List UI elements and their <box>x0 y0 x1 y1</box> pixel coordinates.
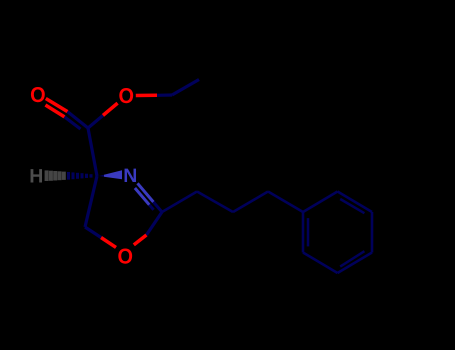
bond C2-O3 ring (red half) <box>134 235 147 245</box>
svg-text:O: O <box>30 83 46 107</box>
bond C=O carbonyl double (navy half) <box>65 112 89 129</box>
bond O3-C5 ring (navy half) <box>85 227 101 238</box>
hashed wedge C4-H (gray dashes near H) <box>47 170 64 181</box>
bond C=O carbonyl double (red half) <box>45 99 67 117</box>
bond N=C2 double (blue halves) <box>135 183 154 205</box>
chain bond CH2-phenyl <box>268 192 303 213</box>
svg-text:N: N <box>123 165 137 187</box>
bond Cc-O2 ester single (red half) <box>103 103 118 115</box>
chain bond C2-CH2 <box>162 192 197 213</box>
bond O2-CH2 (red half) <box>136 94 157 98</box>
bond CH2-CH3 ethyl <box>172 80 199 96</box>
bold wedge C4-N (navy apex half) <box>99 175 104 177</box>
hashed wedge C4-H (navy dashes near C4) <box>69 172 92 180</box>
benzene inner double bond lines <box>308 199 364 267</box>
bond Cc-O2 ester single (navy half) <box>88 115 103 128</box>
bold wedge C4-N (blue wide half) <box>104 170 122 179</box>
bond O2-CH2 (navy half) <box>157 93 172 97</box>
chain bond CH2-CH2b <box>233 192 268 213</box>
bond N=C2 double (navy halves) <box>149 202 162 212</box>
bond Cc-C4 <box>88 128 97 176</box>
bond C2-O3 ring (navy half) <box>146 212 162 235</box>
svg-text:H: H <box>29 166 43 188</box>
benzene ring edges <box>303 192 372 274</box>
svg-text:O: O <box>117 244 133 268</box>
svg-text:O: O <box>118 84 134 108</box>
chain bond CH2-CH2 <box>197 192 233 213</box>
bond O3-C5 ring (red half) <box>101 238 116 248</box>
bond C5-C4 ring <box>85 176 97 227</box>
